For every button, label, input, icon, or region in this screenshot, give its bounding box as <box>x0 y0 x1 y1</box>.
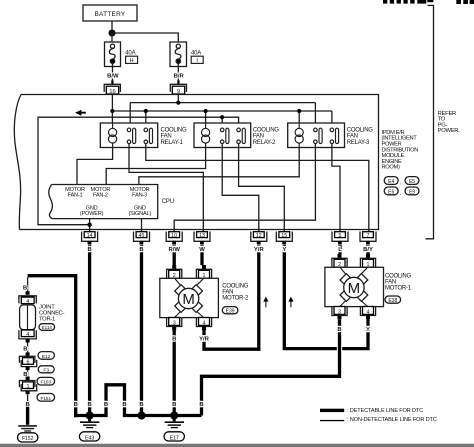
svg-text:4: 4 <box>26 332 29 338</box>
motor-1 M symbol <box>344 277 364 297</box>
svg-text:H: H <box>130 58 134 64</box>
wire connector 5 to motor-1 pin 2 (L) <box>338 245 341 254</box>
svg-text:B/Y: B/Y <box>363 247 373 253</box>
junction dot line C / relay-2 contact a <box>220 115 224 119</box>
wire relay-2 contact a to connector 12 <box>222 144 259 232</box>
svg-text:4: 4 <box>203 320 206 326</box>
svg-text:E12: E12 <box>42 354 51 360</box>
svg-text:12: 12 <box>256 233 262 239</box>
connector oval F152 <box>18 433 38 442</box>
svg-text:13: 13 <box>199 233 205 239</box>
wire relay-1 contact b to connector 7 <box>146 144 369 232</box>
connector oval E12 <box>38 352 54 360</box>
connector oval F151 <box>37 394 55 402</box>
connector pin 12 <box>251 232 267 245</box>
inline connector 6 (E12/F3) <box>19 352 36 370</box>
wire relay-3 contact b to connector 5 <box>332 144 340 232</box>
wire fuse I to connector 9, label B/R <box>177 67 179 81</box>
svg-text:B: B <box>23 347 27 353</box>
wire color labels below module <box>87 247 373 253</box>
connector oval E39 <box>222 307 238 314</box>
connector pin 14 <box>82 232 98 245</box>
svg-text:,: , <box>400 190 401 195</box>
svg-text:E4: E4 <box>388 179 394 185</box>
relay-3 coil <box>295 123 303 148</box>
connector oval F103 <box>37 377 55 385</box>
relay-1 coil <box>109 123 117 148</box>
svg-text:B: B <box>122 402 126 408</box>
svg-text:B: B <box>199 402 203 408</box>
motor-1 pin 2 <box>338 254 342 258</box>
svg-text:B: B <box>74 402 78 408</box>
wire line C to relay-2 contact a <box>221 117 223 128</box>
svg-text:Y: Y <box>366 327 370 333</box>
motor-1 pin leads <box>340 267 368 306</box>
B labels on ground bus wires <box>74 402 204 408</box>
junction dot bus / connector 14 wire / ground E43 <box>86 411 94 419</box>
wire line B to relay-2 coil <box>205 111 207 129</box>
svg-text:10: 10 <box>171 233 177 239</box>
wire relay-3 coil to CPU motor fan-3 <box>139 148 299 185</box>
svg-text:B: B <box>139 247 143 253</box>
svg-text:E38: E38 <box>388 298 397 304</box>
cooling fan relay-1 <box>100 123 157 148</box>
wire connector 7 to motor-1 pin 1 (B/Y) <box>366 245 369 254</box>
motor-2 M symbol <box>178 288 198 308</box>
svg-text:M: M <box>182 291 195 308</box>
connector oval E38 <box>385 296 401 303</box>
junction dot battery feed <box>109 30 116 37</box>
wire battery to junction <box>111 21 113 33</box>
svg-text:CPU: CPU <box>162 199 174 205</box>
svg-text:B: B <box>87 402 91 408</box>
wire motor-2 pin 3 to ground bus (B) <box>173 330 176 416</box>
wire connector 6 to connector 1 (B) <box>27 370 29 377</box>
svg-text:15: 15 <box>281 233 287 239</box>
wire CPU gnd power to connector 14 <box>89 219 91 232</box>
wire motor-1 pin 3 ground return (B) <box>202 319 340 415</box>
svg-text:6: 6 <box>27 360 30 366</box>
wire line A to relay-1 contact a <box>129 103 131 129</box>
wire relay-3 contact a to connector 10 <box>174 144 315 232</box>
svg-text:4: 4 <box>367 309 370 315</box>
wire connector 10 to motor-2 pin 2 (R/W) <box>173 245 176 265</box>
svg-text:B/R: B/R <box>174 74 185 80</box>
cooling fan relay-2 <box>194 123 251 148</box>
bus line A (from connector 9) <box>130 102 315 104</box>
svg-text:E114: E114 <box>42 325 53 330</box>
relay-2 contact a <box>220 128 229 144</box>
legend: detectable line <box>320 409 344 412</box>
cooling fan relay-3 <box>288 123 345 148</box>
joint connector feed wire <box>28 276 76 416</box>
wire connector 1 to ground (B) <box>27 394 29 407</box>
svg-text:B: B <box>87 247 91 253</box>
junction dot bus / connector 45 wire <box>137 411 145 419</box>
motor-2 pin 1 <box>202 265 206 269</box>
svg-text:45: 45 <box>139 233 145 239</box>
ground F152 <box>18 426 37 431</box>
svg-text:Y/R: Y/R <box>199 336 210 342</box>
connector pin 7 <box>360 232 376 245</box>
motor-2 body box <box>160 278 219 317</box>
svg-text:E9: E9 <box>409 190 415 196</box>
wire line B to relay-3 coil <box>298 111 300 129</box>
junction dot line B / relay-1 contact b <box>144 109 148 113</box>
wire line B to relay-1 contact b <box>145 111 147 128</box>
svg-text:B: B <box>337 327 341 333</box>
IPDM E/R module box (torn left edge) <box>14 95 378 230</box>
motor-2 pin 4 <box>196 318 211 327</box>
page footer band <box>0 444 474 447</box>
wire line A to relay-3 contact a <box>314 103 316 129</box>
wire connector 9 into module <box>177 94 179 103</box>
svg-text:3: 3 <box>173 320 176 326</box>
joint connector-1 <box>19 291 36 342</box>
svg-text:B: B <box>104 402 108 408</box>
junction dot gnd power / line C return <box>87 223 91 227</box>
svg-text:Y/R: Y/R <box>254 247 265 253</box>
relay-1 contact a <box>127 128 136 144</box>
svg-text:,: , <box>420 180 421 185</box>
svg-text:B/W: B/W <box>107 74 119 80</box>
junction dot line B / connector 16 wire <box>110 109 114 113</box>
wire relay-1 contact a to connector 13 <box>129 144 203 232</box>
connector oval E4 <box>384 177 401 186</box>
connector pin 9 (IPDM) <box>170 80 186 95</box>
motor-1 pin 4 <box>360 307 375 316</box>
wire fuse H to connector 16, label B/W <box>112 67 114 81</box>
wire relay-2 coil to CPU motor fan-2 <box>106 148 205 185</box>
motor-1 pin 3 <box>332 307 347 316</box>
svg-text:14: 14 <box>87 233 93 239</box>
relay-3 contact b <box>330 128 339 144</box>
svg-text:F151: F151 <box>40 396 51 401</box>
svg-text:E43: E43 <box>85 435 94 441</box>
junction dot bus / motor-2 pin 3 wire / ground E17 <box>170 411 178 419</box>
legend: non-detectable line <box>320 420 344 421</box>
svg-text:B: B <box>139 402 143 408</box>
motor-1 armature arms <box>340 274 368 302</box>
motor-2 pin 2 <box>172 265 176 269</box>
svg-text:1: 1 <box>27 384 30 390</box>
motor-2 armature arms <box>175 285 203 313</box>
svg-text:7: 7 <box>367 233 370 239</box>
svg-text:,: , <box>400 180 401 185</box>
connector pin 13 <box>194 232 210 245</box>
ground E43 <box>79 416 99 442</box>
wire junction to fusible link 2 <box>112 33 178 42</box>
svg-text:B: B <box>172 402 176 408</box>
svg-text:R/W: R/W <box>168 247 180 253</box>
svg-text:: NON-DETECTABLE LINE FOR DTC: : NON-DETECTABLE LINE FOR DTC <box>347 417 437 423</box>
battery B1 <box>83 5 137 21</box>
relay-2 coil <box>202 123 210 148</box>
relay-3 contact a <box>314 128 323 144</box>
svg-text:B: B <box>172 336 176 342</box>
junction dot line B / relay-3 coil <box>297 109 301 113</box>
svg-text:L: L <box>338 247 342 253</box>
cropped page-title text fragments (top right) <box>383 0 474 4</box>
svg-text:MOTORFAN-2: MOTORFAN-2 <box>91 187 111 198</box>
wire line B end to relay-3 contact b <box>331 111 333 128</box>
svg-text:BATTERY: BATTERY <box>95 11 126 18</box>
svg-text:4: 4 <box>26 299 29 305</box>
svg-text:MOTORFAN-3: MOTORFAN-3 <box>130 187 150 198</box>
fusible link I 40A <box>170 42 187 67</box>
motor-2 pin leads <box>175 278 204 317</box>
connector oval E114 <box>39 324 55 331</box>
wire connector 14 to ground bus (B) <box>88 245 91 416</box>
svg-text:: DETECTABLE LINE FOR DTC: : DETECTABLE LINE FOR DTC <box>347 408 423 414</box>
svg-text:F103: F103 <box>40 380 51 385</box>
svg-text:M: M <box>348 280 361 297</box>
svg-text:B: B <box>23 285 27 291</box>
svg-text:E39: E39 <box>226 309 235 315</box>
svg-text:E17: E17 <box>170 435 179 441</box>
motor-1 pin 1 <box>366 254 370 258</box>
wire relay-2 contact b to connector 15 <box>239 144 285 232</box>
svg-text:MOTORFAN-1: MOTORFAN-1 <box>65 187 85 198</box>
connector oval F3 <box>38 366 54 373</box>
connector pin 10 <box>166 232 182 245</box>
junction dot line B / relay-2 coil <box>204 109 208 113</box>
ground bus with hop <box>74 385 202 417</box>
motor-1 body box <box>325 267 384 306</box>
wire thick corner to joint connector-1 (B) <box>27 277 29 291</box>
relay-1 contact b <box>144 128 153 144</box>
svg-text:E6: E6 <box>388 190 394 196</box>
off-page arrow (left) above line C <box>75 110 86 116</box>
connector pin 5 <box>332 232 348 245</box>
junction dot line A / connector 9 <box>176 101 180 105</box>
svg-text:5: 5 <box>339 233 342 239</box>
svg-text:F3: F3 <box>43 368 49 374</box>
fusible link H 40A <box>105 42 121 67</box>
svg-text:F152: F152 <box>22 436 34 442</box>
connector oval E5 <box>405 177 422 186</box>
connector pin 16 (IPDM) <box>104 80 120 95</box>
connector pin 15 <box>276 232 292 245</box>
motor-2 pin 3 <box>167 318 182 327</box>
direction arrow up (on Y/R run) <box>263 297 268 308</box>
wire connector 45 to ground bus (B) <box>140 245 143 416</box>
connector oval E9 <box>405 187 419 196</box>
inline connector 1 (F103/F151) <box>19 377 36 395</box>
svg-text:3: 3 <box>338 309 341 315</box>
wire connector 13 to motor-2 pin 1 (W) <box>200 245 203 265</box>
direction arrow up (on Y run) <box>288 297 293 308</box>
wire connector 15 to motor-1 pin 4 (Y) with hop over B wire <box>284 245 368 349</box>
relay-2 contact b <box>237 128 246 144</box>
bus line B (from connector 16) <box>112 110 332 112</box>
svg-text:W: W <box>199 247 205 253</box>
CPU box (torn left edge) <box>49 185 158 219</box>
connector pin 45 <box>134 232 150 245</box>
wire CPU gnd signal to connector 45 <box>141 219 143 232</box>
refer-to bracket <box>426 5 434 238</box>
wire joint connector to connector 6 (B) <box>27 343 29 353</box>
ground E17 <box>164 416 184 442</box>
bus line C (ground return rail) <box>38 117 239 225</box>
wire junction to fusible link 1 <box>111 33 113 42</box>
svg-text:E5: E5 <box>409 179 415 185</box>
wire connector 16 through to relay-1 coil <box>111 94 113 129</box>
svg-text:Y: Y <box>282 247 286 253</box>
connector oval E6 <box>384 187 401 196</box>
wire connector 12 to motor-2 pin 4 (Y/R) <box>204 245 259 349</box>
wire relay-1 coil to CPU motor fan-1 <box>77 148 113 185</box>
